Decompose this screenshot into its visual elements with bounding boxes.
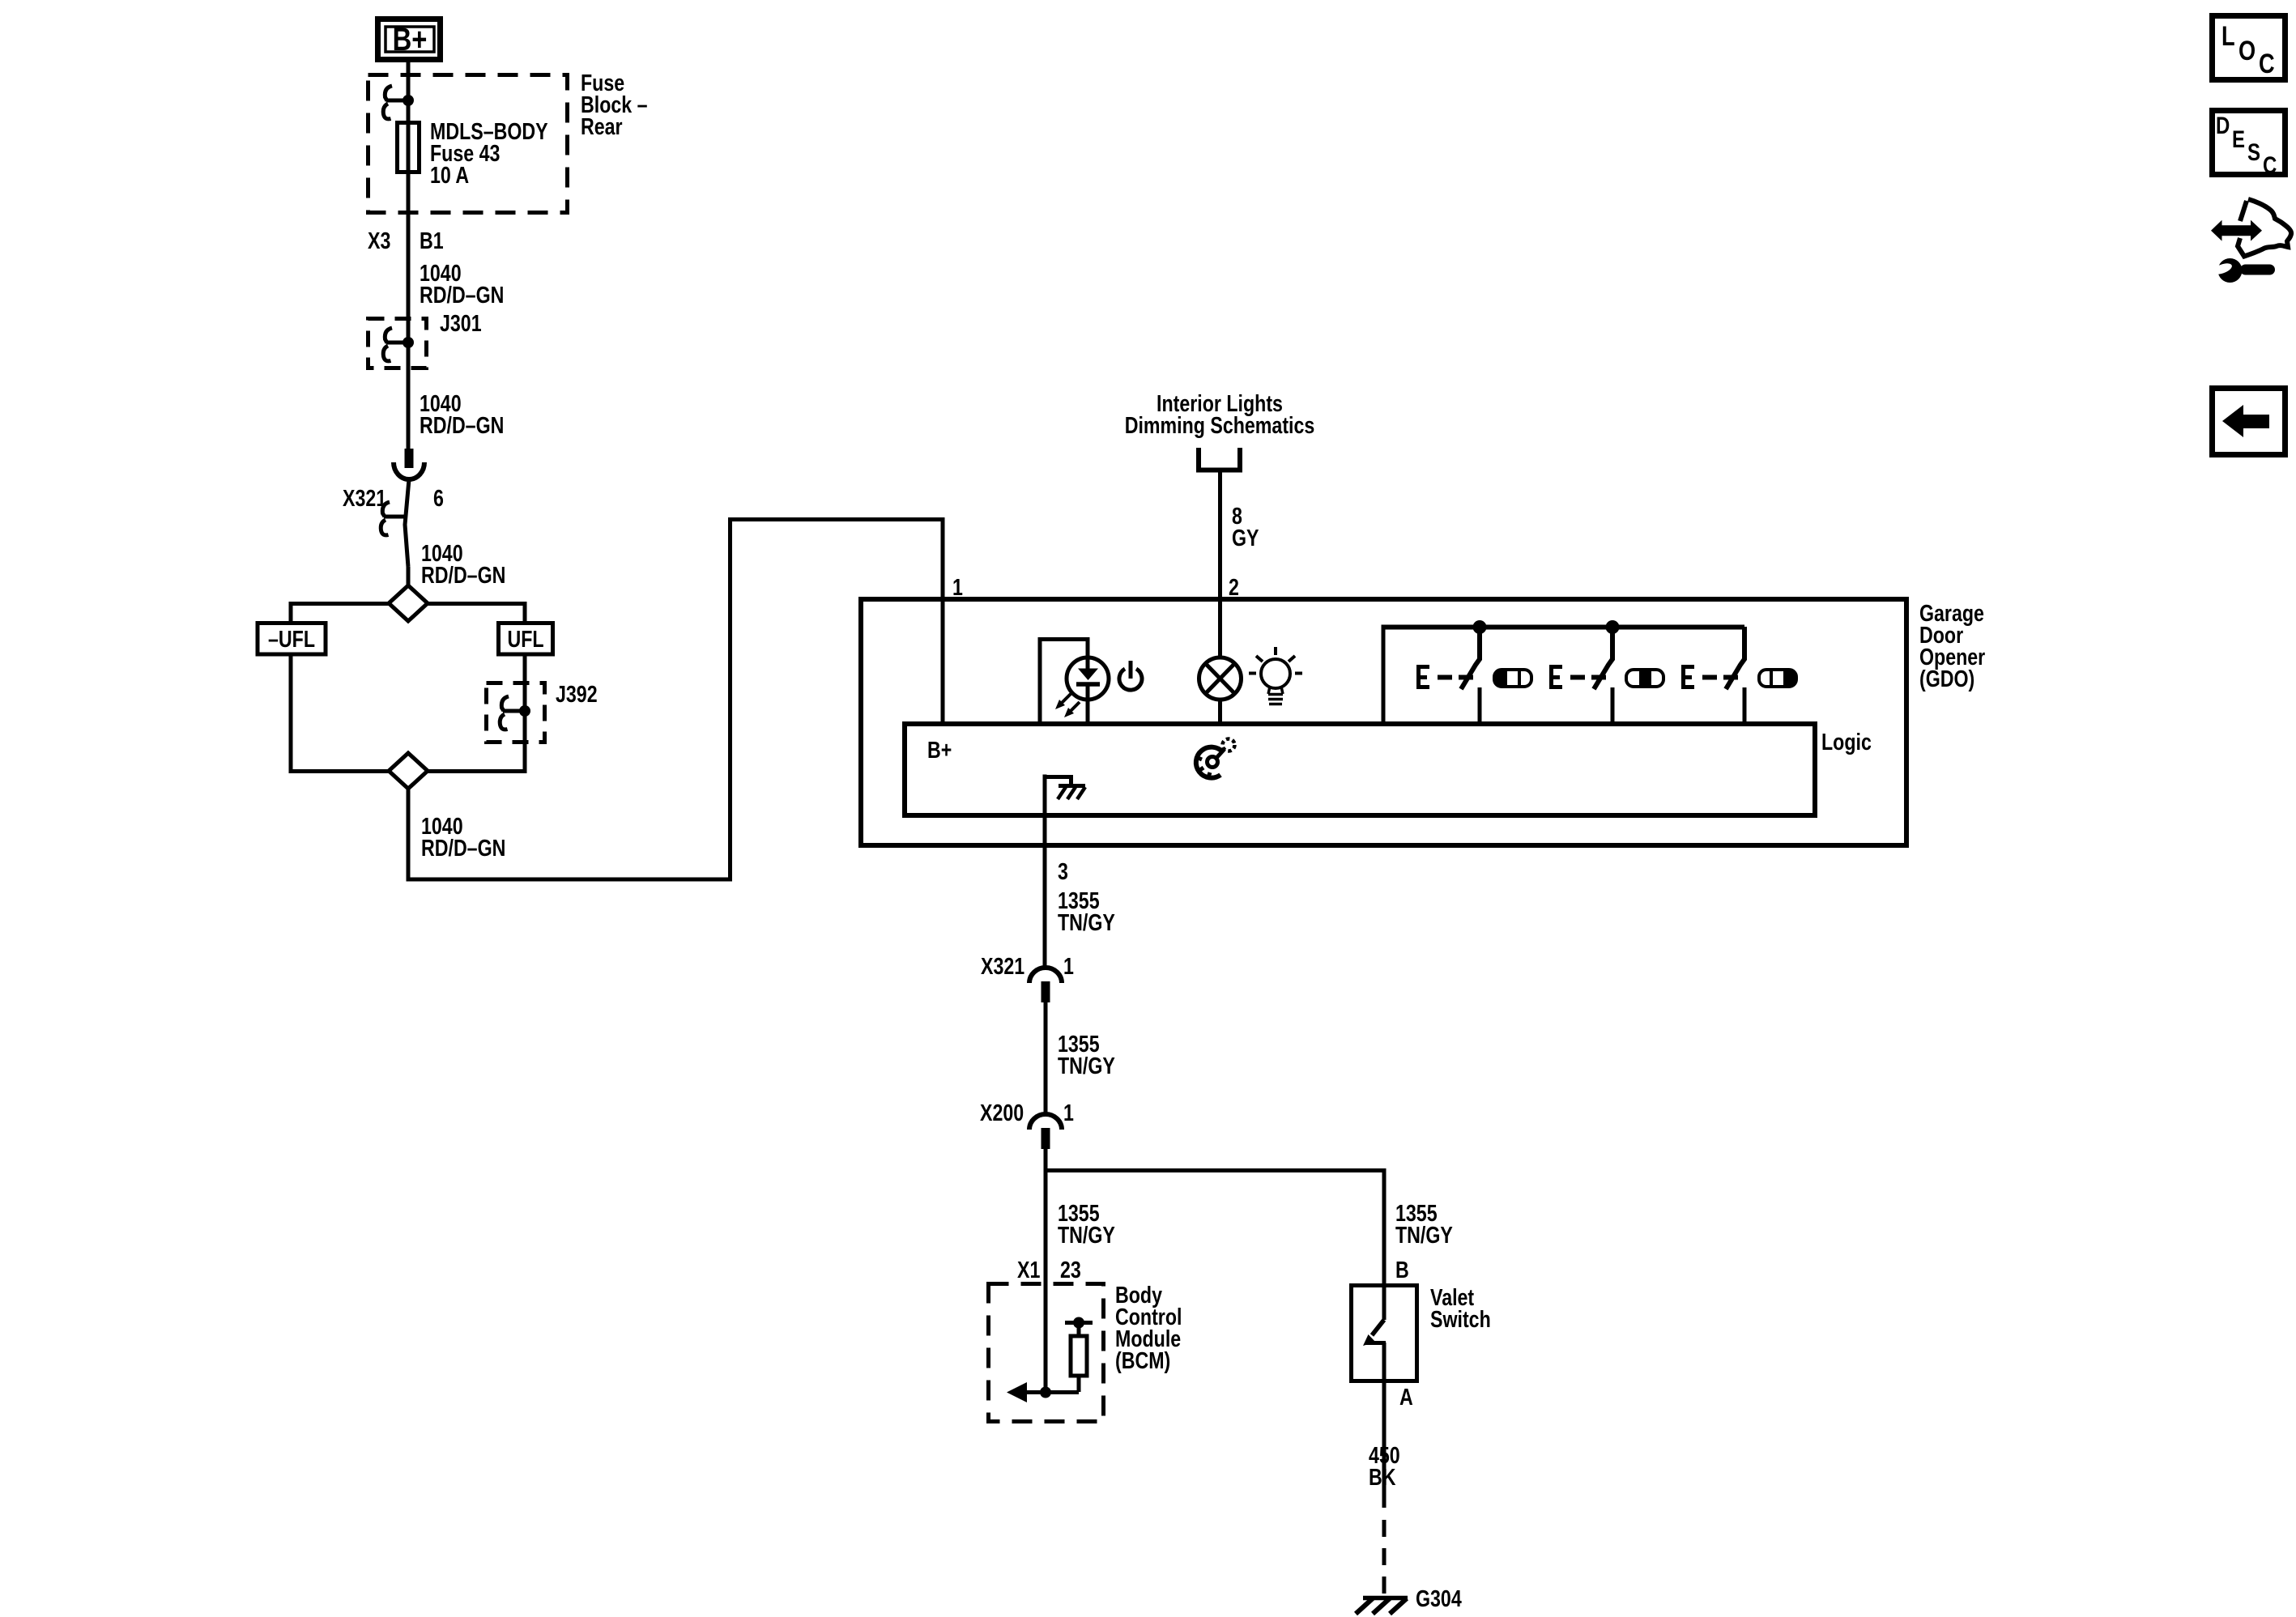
svg-text:TN/GY: TN/GY [1058, 1221, 1115, 1248]
internal ground symbol in logic box [1045, 775, 1085, 800]
in-line connector X321 pin 1 (dome + male bar) [1029, 968, 1062, 1002]
junction dot at fuse clip [403, 95, 414, 106]
wire bottom splice to GDO pin 1 [408, 520, 943, 880]
switch 3 indicator pill (right filled) [1759, 670, 1796, 687]
LED circle with diode [1067, 657, 1109, 724]
svg-text:B1: B1 [420, 227, 444, 253]
svg-text:O: O [2238, 35, 2256, 66]
double arrow [2211, 220, 2262, 241]
DESC letters [2216, 111, 2277, 178]
switch 3 (E key switch) [1681, 627, 1744, 724]
splice J301 dashed box [368, 319, 427, 368]
svg-text:RD/D–GN: RD/D–GN [421, 834, 505, 861]
svg-text:(BCM): (BCM) [1115, 1347, 1170, 1373]
svg-text:RD/D–GN: RD/D–GN [420, 281, 504, 308]
svg-text:X1: X1 [1017, 1256, 1040, 1283]
svg-text:Switch: Switch [1430, 1305, 1491, 1332]
fuse block dashed outline (Fuse Block - Rear) [368, 75, 568, 213]
fuse clip contact [383, 86, 408, 119]
in-line connector X321 pin 6 (male bar into female cup) [394, 449, 424, 567]
Body Control Module dashed box [989, 1284, 1104, 1422]
Logic box [905, 724, 1815, 815]
svg-text:(GDO): (GDO) [1919, 665, 1974, 691]
switch 2 indicator pill (middle filled) [1626, 670, 1663, 687]
svg-text:C: C [2263, 151, 2277, 178]
LED emission arrows [1055, 694, 1080, 717]
J301 clip contact [383, 328, 408, 361]
fuse MDLS-BODY Fuse 43 10A [398, 123, 420, 172]
svg-text:1: 1 [1063, 952, 1074, 979]
svg-text:C: C [2259, 48, 2275, 79]
svg-text:BK: BK [1369, 1463, 1396, 1490]
svg-text:RD/D–GN: RD/D–GN [421, 561, 505, 588]
splice J392 dashed box [487, 683, 545, 743]
off-page connector symbol [1196, 448, 1242, 470]
svg-text:1: 1 [1063, 1099, 1074, 1126]
svg-text:2: 2 [1229, 573, 1239, 600]
svg-text:TN/GY: TN/GY [1058, 1052, 1115, 1079]
splice diamond (bottom) [389, 753, 428, 789]
svg-text:L: L [2221, 20, 2235, 52]
LED photodiode branch bracket [1040, 640, 1088, 725]
svg-text:S: S [2247, 138, 2260, 165]
ground G304 [1356, 1598, 1408, 1615]
svg-text:G304: G304 [1416, 1585, 1462, 1611]
wrench [2218, 258, 2243, 283]
power symbol icon [1119, 661, 1142, 690]
svg-text:TN/GY: TN/GY [1395, 1221, 1453, 1248]
LOC letters [2221, 20, 2275, 79]
svg-text:1: 1 [952, 573, 963, 600]
Garage Door Opener (GDO) box [861, 599, 1906, 845]
wire UFL down through J392 to bottom splice [428, 654, 525, 772]
junction dot at resistor top [1073, 1317, 1084, 1329]
svg-text:J301: J301 [440, 309, 482, 336]
switch 2 (E key switch) [1549, 627, 1612, 724]
back arrow nav box [2213, 389, 2285, 455]
svg-text:3: 3 [1058, 857, 1068, 884]
back arrow [2222, 405, 2269, 437]
wire diamond to UFL [428, 604, 525, 622]
wire X321 to X200 [1044, 1002, 1048, 1113]
switch 1 indicator pill (left filled) [1494, 670, 1531, 687]
splice diamond (top) [389, 585, 428, 621]
svg-text:B: B [1395, 1256, 1409, 1283]
switch rail [1382, 625, 1745, 630]
svg-text:6: 6 [433, 484, 444, 511]
hand outline [2238, 199, 2291, 257]
svg-text:23: 23 [1060, 1256, 1081, 1283]
svg-text:B+: B+ [927, 736, 952, 763]
svg-text:X321: X321 [343, 484, 386, 511]
wire X200 down to BCM [1044, 1149, 1048, 1282]
svg-text:10 A: 10 A [430, 161, 469, 188]
wire 8 GY from interior lights to GDO pin 2 [1218, 470, 1222, 659]
svg-text:X200: X200 [980, 1099, 1024, 1126]
svg-text:GY: GY [1232, 524, 1259, 551]
junction dot J301 [403, 337, 414, 348]
B+ battery feed box [378, 19, 441, 60]
bulb icon [1249, 647, 1302, 704]
wire B+ to fuse block [407, 62, 411, 100]
DESC nav box [2213, 111, 2285, 175]
svg-text:UFL: UFL [507, 625, 543, 652]
pull-up resistor in BCM [1065, 1322, 1093, 1392]
pin 1 wire inside GDO to logic [941, 599, 945, 724]
wire through fuse [407, 100, 411, 449]
in-line connector X200 pin 1 (dome + male bar) [1029, 1114, 1062, 1149]
Valet Switch box [1352, 1286, 1417, 1381]
svg-text:TN/GY: TN/GY [1058, 908, 1115, 935]
gauge / settings icon inside logic [1196, 739, 1235, 778]
pin 3 wire out of GDO [1043, 777, 1047, 967]
rail junction dot 1 [1473, 620, 1487, 634]
BCM internal node line with arrow [1007, 1382, 1079, 1402]
svg-text:X3: X3 [368, 227, 390, 253]
wire into BCM [1044, 1282, 1048, 1392]
svg-text:J392: J392 [556, 680, 598, 707]
junction dot in BCM [1040, 1387, 1051, 1398]
svg-text:A: A [1399, 1383, 1413, 1410]
branch wire to valet switch [1046, 1171, 1384, 1285]
wire diamond to -UFL [291, 604, 389, 622]
wire -UFL down to bottom splice [291, 654, 389, 772]
svg-text:Rear: Rear [581, 113, 623, 139]
svg-text:B+: B+ [393, 21, 428, 57]
UFL option box [499, 623, 553, 655]
-UFL option box [258, 623, 326, 655]
X321 clip contact [381, 502, 406, 535]
svg-text:RD/D–GN: RD/D–GN [420, 411, 504, 438]
LOC nav box [2213, 16, 2285, 80]
svg-text:D: D [2216, 111, 2230, 138]
valet switch blade [1363, 1285, 1386, 1508]
svg-text:Dimming Schematics: Dimming Schematics [1125, 411, 1315, 438]
svg-text:Logic: Logic [1821, 728, 1872, 755]
junction dot J392 [519, 705, 530, 717]
J392 clip contact [500, 696, 525, 730]
svg-text:X321: X321 [981, 952, 1024, 979]
rail drop to logic [1382, 627, 1386, 724]
rail junction dot 2 [1606, 620, 1620, 634]
svg-text:–UFL: –UFL [268, 625, 315, 652]
wire into top splice diamond [407, 567, 411, 585]
dashed ground wire [1382, 1520, 1387, 1598]
switch 1 (E key switch) [1416, 627, 1480, 724]
interactive hand/wrench icon [2211, 199, 2291, 283]
lamp circle (courtesy lamp output) [1199, 657, 1242, 724]
svg-text:E: E [2232, 125, 2245, 152]
